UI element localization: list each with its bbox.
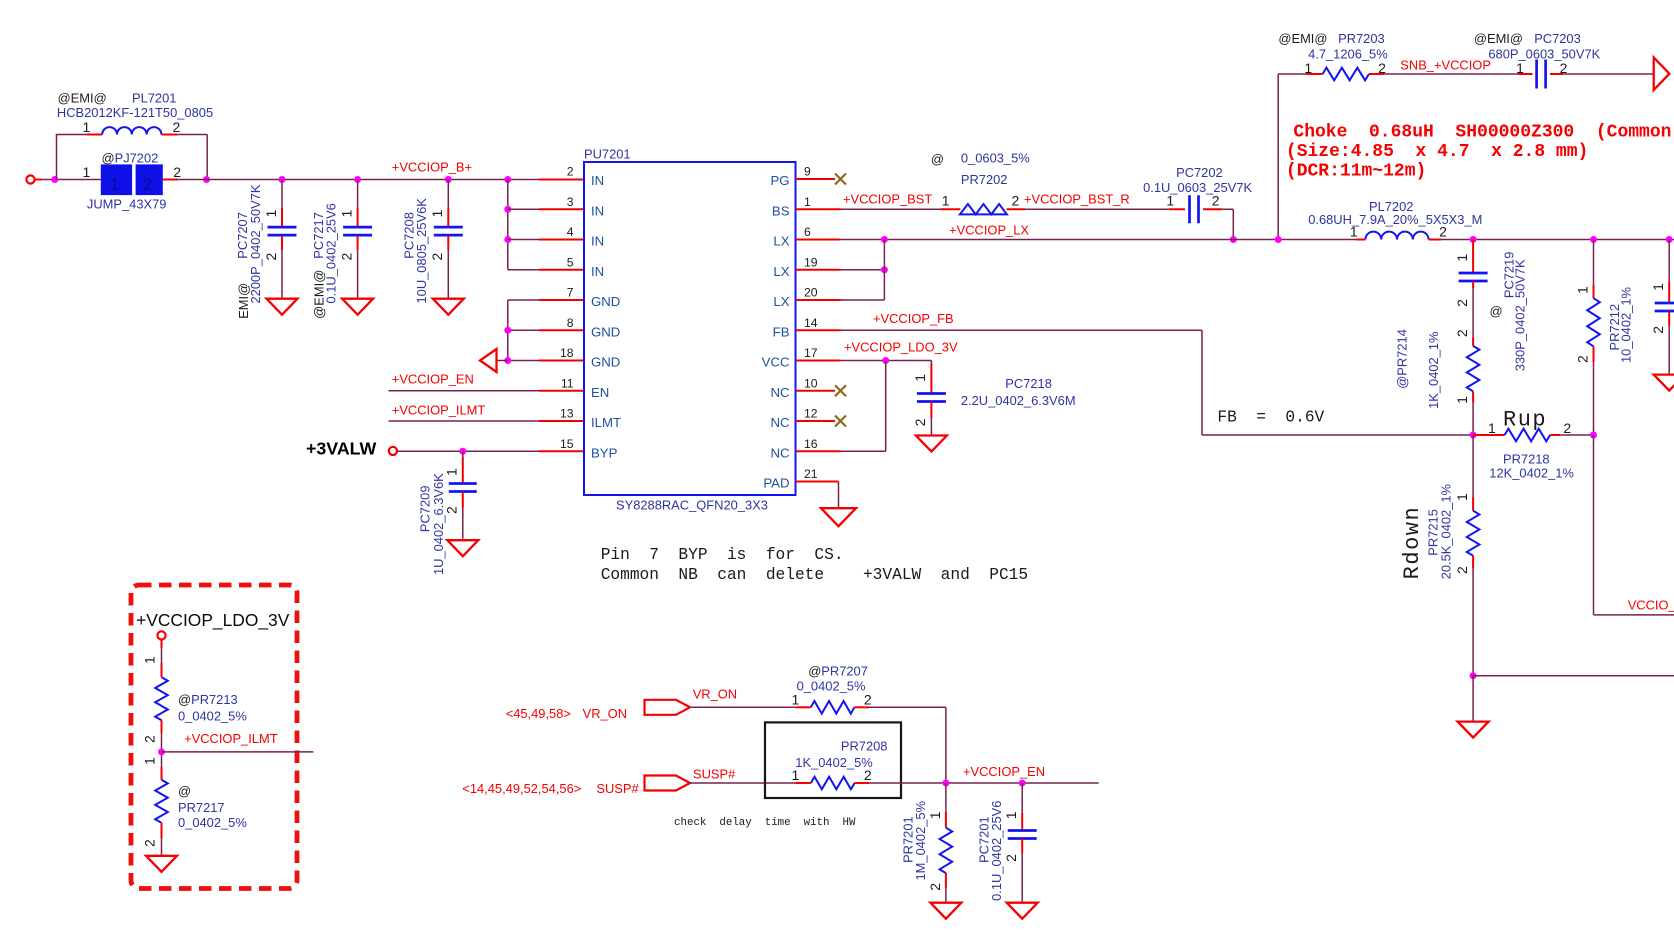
svg-text:PR7202: PR7202 [961, 172, 1008, 187]
net label SUSP# [693, 766, 736, 781]
svg-text:0.68UH_7.9A_20%_5X5X3_M: 0.68UH_7.9A_20%_5X5X3_M [1308, 212, 1482, 227]
svg-text:PR7208: PR7208 [841, 739, 888, 754]
wire [447, 250, 449, 299]
resistor PR7212 [1587, 284, 1600, 362]
refdes PC7201 [977, 816, 992, 863]
svg-text:2.2U_0402_6.3V6M: 2.2U_0402_6.3V6M [961, 393, 1076, 408]
note Pin 7 BYP line 1 [601, 546, 844, 564]
svg-text:ILMT: ILMT [591, 415, 621, 430]
note FB = 0.6V [1217, 409, 1324, 427]
wire [796, 390, 836, 392]
svg-text:PR7218: PR7218 [1503, 452, 1550, 467]
svg-text:14: 14 [804, 316, 818, 330]
note Pin 7 BYP line 2 [601, 566, 1028, 584]
svg-text:1: 1 [142, 757, 158, 765]
refdes PC7209 [418, 486, 433, 533]
value 1M_0402_5% [913, 801, 928, 881]
svg-text:10: 10 [804, 376, 818, 390]
svg-text:(DCR:11m~12m): (DCR:11m~12m) [1286, 162, 1426, 182]
wire [507, 300, 509, 361]
net label +VCCIOP_EN [963, 764, 1045, 779]
net label +VCCIOP_ILMT [184, 731, 278, 746]
wire [462, 508, 464, 539]
svg-text:19: 19 [804, 255, 818, 269]
pin name FB (pin 14) of PU7201 [773, 324, 790, 339]
svg-text:0.1U_0603_25V7K: 0.1U_0603_25V7K [1143, 180, 1252, 195]
note check delay time with HW [674, 817, 856, 829]
svg-text:1M_0402_5%: 1M_0402_5% [913, 801, 928, 881]
refdes PR7203 [1338, 31, 1385, 46]
pin 1 of PJ7202 [83, 164, 91, 180]
svg-text:EN: EN [591, 385, 609, 400]
label @EMI@ for PR7203 [1278, 31, 1327, 46]
wire [1668, 240, 1670, 282]
svg-text:1: 1 [792, 692, 800, 708]
junction [354, 176, 361, 183]
resistor PR7203 [1306, 68, 1384, 81]
wire [1472, 676, 1474, 722]
junction [942, 780, 949, 787]
wire net +VCCIOP_BST_R [1025, 208, 1170, 210]
wire [357, 180, 359, 208]
pin 2 of PR7218 [1563, 420, 1571, 436]
value 12K_0402_1% [1489, 466, 1574, 481]
svg-text:1: 1 [429, 210, 445, 218]
wire [42, 179, 101, 181]
label @ for PC7219 [1490, 304, 1503, 319]
wire [885, 361, 887, 452]
pin 2 of PJ7202 [173, 164, 181, 180]
wire net +VCCIOP_EN bottom [869, 782, 1099, 784]
pin number 17 of PU7201 [804, 346, 818, 360]
wire [508, 299, 539, 301]
op-amp U1 regulator PU7201 body [584, 162, 796, 495]
wire [796, 420, 836, 422]
net label +VCCIOP_LDO_3V [844, 340, 958, 355]
wire net +VCCIOP_B+ [177, 179, 539, 181]
pin 1 of right capacitor [1650, 283, 1666, 291]
pin 2 of PR7214 [1454, 329, 1470, 337]
svg-text:@PR7207: @PR7207 [808, 663, 868, 678]
wire net SUSP# [690, 782, 795, 784]
label @ for PR7202 [931, 152, 944, 167]
pin 1 of PC7208 [429, 210, 445, 218]
svg-text:0.1U_0402_25V6: 0.1U_0402_25V6 [989, 801, 1004, 901]
svg-text:VR_ON: VR_ON [693, 687, 737, 702]
net label +VCCIOP_EN [392, 372, 474, 387]
svg-text:2: 2 [1012, 193, 1020, 209]
svg-text:7: 7 [567, 286, 574, 300]
pin 1 of PR7203 [1304, 60, 1312, 76]
svg-text:PC7203: PC7203 [1534, 31, 1581, 46]
wire [177, 134, 207, 136]
wire [507, 180, 509, 270]
pin name GND (pin 18) of PU7201 [591, 355, 620, 370]
svg-text:Choke 0.68uH SH00000Z300 (C: Choke 0.68uH SH00000Z300 (Common Mode) [1293, 123, 1674, 143]
svg-text:GND: GND [591, 294, 620, 309]
wire [1472, 288, 1474, 337]
pin name IN (pin 3) of PU7201 [591, 203, 604, 218]
wire [1593, 240, 1595, 285]
wire [1668, 326, 1670, 375]
pin 1 of PL7202 [1350, 224, 1358, 240]
pin 2 of PC7201 [1003, 854, 1019, 862]
pin 1 of PR7201 [927, 811, 943, 819]
note Choke spec line 2 [1286, 142, 1588, 162]
net label +VCCIOP_B+ [392, 160, 472, 175]
refdes PC7207 [235, 212, 250, 259]
pin name PAD (pin 21) of PU7201 [763, 476, 789, 491]
value 0_0402_5% [178, 815, 247, 830]
junction [504, 176, 511, 183]
wire net +VCCIOP_LDO_3V [841, 360, 932, 362]
pin number 18 of PU7201 [560, 346, 574, 360]
pin 2 of PC7202 [1212, 193, 1220, 209]
refdes PC7219 [1501, 252, 1516, 299]
pin number 13 of PU7201 [560, 407, 574, 421]
wire [161, 648, 163, 663]
svg-text:BS: BS [772, 203, 790, 218]
value 0_0402_5% [797, 678, 866, 693]
capacitor PC7209 [449, 457, 477, 508]
svg-text:@PR7214: @PR7214 [1394, 329, 1409, 389]
svg-text:1: 1 [804, 195, 811, 209]
svg-text:0_0402_5%: 0_0402_5% [797, 678, 866, 693]
svg-text:330P_0402_50V7K: 330P_0402_50V7K [1513, 259, 1528, 371]
value 330P_0402_50V7K [1513, 259, 1528, 371]
resistor PR7215 Rdown [1467, 497, 1480, 569]
svg-text:2: 2 [173, 164, 181, 180]
svg-text:SUSP#: SUSP# [693, 766, 736, 781]
pin 1 of PC7203 [1516, 60, 1524, 76]
wire [1473, 675, 1674, 677]
pin number 7 of PU7201 [567, 286, 574, 300]
svg-text:2: 2 [567, 165, 574, 179]
pin number 6 of PU7201 [804, 225, 811, 239]
wire [1222, 208, 1233, 210]
wire [841, 450, 886, 452]
svg-text:2: 2 [1563, 420, 1571, 436]
svg-text:9: 9 [804, 165, 811, 179]
pin name IN (pin 5) of PU7201 [591, 264, 604, 279]
wire [56, 135, 58, 180]
value 0.1U_0603_25V7K [1143, 180, 1252, 195]
value 10U_0805_25V6K [414, 198, 429, 304]
jumper PJ7202 [101, 164, 178, 195]
junction [504, 236, 511, 243]
svg-text:@EMI@: @EMI@ [312, 270, 327, 319]
svg-text:1: 1 [1454, 493, 1470, 501]
svg-text:1: 1 [110, 176, 119, 194]
capacitor PC7219 [1459, 240, 1488, 289]
pin 2 of PC7217 [339, 253, 355, 261]
wire [796, 269, 841, 271]
svg-text:17: 17 [804, 346, 818, 360]
svg-text:+VCCIOP_LX: +VCCIOP_LX [949, 222, 1029, 237]
wire [161, 733, 163, 767]
refdes PR7212 [1607, 304, 1622, 351]
pin 1 of PL7201 [83, 119, 91, 135]
pin 2 of PR7203 [1378, 60, 1386, 76]
wire [796, 360, 841, 362]
ground for PAD [821, 508, 856, 526]
wire [930, 418, 932, 435]
wire output rail [1441, 239, 1674, 241]
wire [508, 239, 539, 241]
svg-text:2: 2 [864, 692, 872, 708]
port SUSP# [645, 776, 691, 791]
svg-text:2: 2 [263, 253, 279, 261]
svg-text:0_0603_5%: 0_0603_5% [961, 151, 1030, 166]
svg-text:HCB2012KF-121T50_0805: HCB2012KF-121T50_0805 [57, 105, 213, 120]
junction [1275, 236, 1282, 243]
junction [1230, 236, 1237, 243]
wire [796, 208, 841, 210]
wire [796, 481, 839, 483]
junction [881, 236, 888, 243]
ground for PC7207 [267, 299, 298, 315]
pin number 8 of PU7201 [567, 316, 574, 330]
svg-text:Rup: Rup [1503, 408, 1547, 433]
svg-text:+VCCIOP_ILMT: +VCCIOP_ILMT [392, 402, 486, 417]
svg-text:+VCCIOP_BST: +VCCIOP_BST [843, 192, 932, 207]
ground for GND pins [480, 349, 497, 372]
label EMI@ [236, 283, 251, 319]
svg-text:16: 16 [804, 437, 818, 451]
junction [1019, 780, 1026, 787]
svg-text:@PR7213: @PR7213 [178, 692, 238, 707]
ground for PC7217 [342, 299, 373, 315]
off-page connector arrow [1654, 57, 1670, 90]
port VR_ON [645, 700, 691, 715]
resistor PR7207 [795, 701, 869, 714]
wire [841, 299, 885, 301]
note Choke spec line 3 [1286, 162, 1426, 182]
pin name LX (pin 19) of PU7201 [773, 264, 789, 279]
ground for PR7201 [930, 903, 961, 919]
value 4.7_1206_5% [1308, 47, 1388, 62]
capacitor PC7208 [434, 208, 463, 251]
wire [206, 135, 208, 180]
svg-text:2: 2 [1574, 355, 1590, 363]
svg-text:@EMI@: @EMI@ [1474, 31, 1523, 46]
label @EMI@ [312, 270, 327, 319]
pin number 21 of PU7201 [804, 467, 818, 481]
refdes PR7215 [1426, 509, 1441, 556]
svg-text:(Size:4.85 x 4.7 x 2.8 mm): (Size:4.85 x 4.7 x 2.8 mm) [1286, 142, 1588, 162]
pin number 5 of PU7201 [567, 255, 574, 269]
wire [1278, 73, 1306, 75]
capacitor PC7201 [1008, 813, 1037, 853]
svg-text:SUSP#: SUSP# [596, 781, 639, 796]
svg-text:1: 1 [1488, 420, 1496, 436]
svg-text:IN: IN [591, 173, 604, 188]
svg-text:GND: GND [591, 324, 620, 339]
wire [508, 329, 539, 331]
svg-text:LX: LX [773, 264, 789, 279]
wire [1593, 362, 1595, 435]
junction [882, 357, 889, 364]
value 0_0603_5% [961, 151, 1030, 166]
value SY8288RAC_QFN20_3X3 [616, 498, 768, 513]
wire net SNB_+VCCIOP [1384, 73, 1518, 75]
junction [881, 266, 888, 273]
junction [459, 448, 466, 455]
svg-text:1: 1 [83, 164, 91, 180]
svg-text:Pin 7 BYP is for CS.: Pin 7 BYP is for CS. [601, 546, 844, 564]
svg-text:@PJ7202: @PJ7202 [102, 150, 159, 165]
svg-text:Common NB can delete +3V: Common NB can delete +3VALW and PC15 [601, 566, 1028, 584]
wire [357, 250, 359, 299]
wire net +VCCIOP_FB [841, 329, 1203, 331]
resistor PR7217 [155, 767, 168, 838]
svg-text:@: @ [178, 783, 191, 798]
net label VR_ON [693, 687, 737, 702]
no-connect cross pin 9 [835, 174, 846, 185]
junction [504, 357, 511, 364]
wire net +VCCIOP_EN [389, 390, 539, 392]
pin number 1 of PU7201 [804, 195, 811, 209]
box around PR7208 [765, 722, 901, 798]
svg-text:LX: LX [773, 294, 789, 309]
wire [161, 640, 163, 648]
wire [539, 299, 584, 301]
pin number 4 of PU7201 [567, 225, 574, 239]
wire [539, 360, 584, 362]
svg-text:+VCCIOP_LDO_3V: +VCCIOP_LDO_3V [136, 610, 290, 630]
ground for PC7209 [447, 540, 478, 556]
ground for right capacitor [1654, 375, 1674, 391]
svg-text:1K_0402_5%: 1K_0402_5% [795, 755, 872, 770]
wire [539, 239, 584, 241]
svg-text:11: 11 [561, 376, 574, 390]
svg-text:IN: IN [591, 264, 604, 279]
ground for PC7208 [433, 299, 464, 315]
svg-text:1: 1 [263, 210, 279, 218]
resistor PR7214 [1467, 337, 1480, 403]
wire [508, 269, 539, 271]
refdes PU7201 [584, 147, 631, 162]
pin 1 of PR7208 [792, 767, 800, 783]
wire [1021, 853, 1023, 903]
svg-text:IN: IN [591, 234, 604, 249]
wire [397, 450, 539, 452]
svg-text:EMI@: EMI@ [236, 283, 251, 319]
value 0_0402_5% [178, 708, 247, 723]
svg-text:2: 2 [1454, 299, 1470, 307]
svg-text:NC: NC [770, 445, 790, 460]
capacitor PC7217 [343, 208, 372, 251]
pin name LX (pin 20) of PU7201 [773, 294, 789, 309]
power label +VCCIOP_LDO_3V [136, 610, 290, 630]
net label VCCIO_ [1628, 597, 1674, 612]
note Choke spec line 1 [1293, 123, 1674, 143]
svg-text:2: 2 [912, 418, 928, 426]
svg-text:21: 21 [804, 467, 818, 481]
pin name NC (pin 10) of PU7201 [770, 385, 790, 400]
wire net VCCIO_ [1594, 614, 1674, 616]
svg-text:12: 12 [804, 407, 818, 421]
pin 2 of PC7218 [912, 418, 928, 426]
wire [945, 888, 947, 903]
wire [796, 299, 841, 301]
ground for PR7215 [1458, 722, 1489, 738]
resistor PR7201 [940, 812, 953, 888]
pin 2 of PL7201 [173, 119, 181, 135]
svg-text:VCCIO_: VCCIO_ [1628, 597, 1674, 612]
svg-text:1: 1 [1166, 193, 1174, 209]
junction [504, 327, 511, 334]
svg-text:PR7203: PR7203 [1338, 31, 1385, 46]
value 2200P_0402_50V7K [248, 184, 263, 303]
svg-text:2: 2 [444, 506, 460, 514]
pin 1 of PR7218 [1488, 420, 1496, 436]
wire net VR_ON [690, 706, 795, 708]
svg-text:6: 6 [804, 225, 811, 239]
pin 2 of PR7207 [864, 692, 872, 708]
wire [539, 450, 584, 452]
wire [1593, 435, 1595, 615]
pin name GND (pin 8) of PU7201 [591, 324, 620, 339]
svg-text:18: 18 [560, 346, 574, 360]
net label SNB_+VCCIOP [1400, 58, 1491, 73]
wire [841, 269, 885, 271]
svg-text:VR_ON: VR_ON [583, 706, 627, 721]
pin 2 of PR7202 [1012, 193, 1020, 209]
pin 1 of PR7214 [1454, 396, 1470, 404]
svg-text:2: 2 [1650, 326, 1666, 334]
svg-text:1: 1 [83, 119, 91, 135]
svg-text:PG: PG [770, 173, 789, 188]
pin 1 of PR7202 [942, 193, 950, 209]
pin name BS (pin 1) of PU7201 [772, 203, 790, 218]
svg-text:20.5K_0402_1%: 20.5K_0402_1% [1438, 484, 1453, 579]
junction [203, 176, 210, 183]
pin 2 of PR7217 [142, 839, 158, 847]
pin 1 of PC7207 [263, 210, 279, 218]
refdes PR7201 [901, 816, 916, 863]
svg-text:LX: LX [773, 234, 789, 249]
pin number 15 of PU7201 [560, 437, 574, 451]
wire [796, 178, 836, 180]
resistor PR7208 [795, 777, 869, 790]
pin name IN (pin 2) of PU7201 [591, 173, 604, 188]
svg-text:+VCCIOP_FB: +VCCIOP_FB [873, 311, 954, 326]
pin number 11 of PU7201 [561, 376, 574, 390]
svg-text:+VCCIOP_B+: +VCCIOP_B+ [392, 160, 472, 175]
pin name PG (pin 9) of PU7201 [770, 173, 789, 188]
svg-text:3: 3 [567, 195, 574, 209]
junction [1666, 236, 1673, 243]
+VCCIOP_LDO_3V terminal [157, 631, 165, 639]
value HCB2012KF-121T50_0805 [57, 105, 213, 120]
svg-text:1U_0402_6.3V6K: 1U_0402_6.3V6K [431, 473, 446, 575]
wire [1021, 783, 1023, 813]
wire [539, 179, 584, 181]
svg-text:NC: NC [770, 415, 790, 430]
svg-text:1: 1 [444, 468, 460, 476]
wire [539, 329, 584, 331]
pin 1 of PC7209 [444, 468, 460, 476]
refdes PC7218 [1005, 376, 1052, 391]
svg-text:20: 20 [804, 286, 818, 300]
svg-text:PC7218: PC7218 [1005, 376, 1052, 391]
label Rup [1503, 408, 1547, 433]
pin name VCC (pin 17) of PU7201 [762, 355, 790, 370]
pin name BYP (pin 15) of PU7201 [591, 445, 618, 460]
pin number 9 of PU7201 [804, 165, 811, 179]
wire [539, 208, 584, 210]
